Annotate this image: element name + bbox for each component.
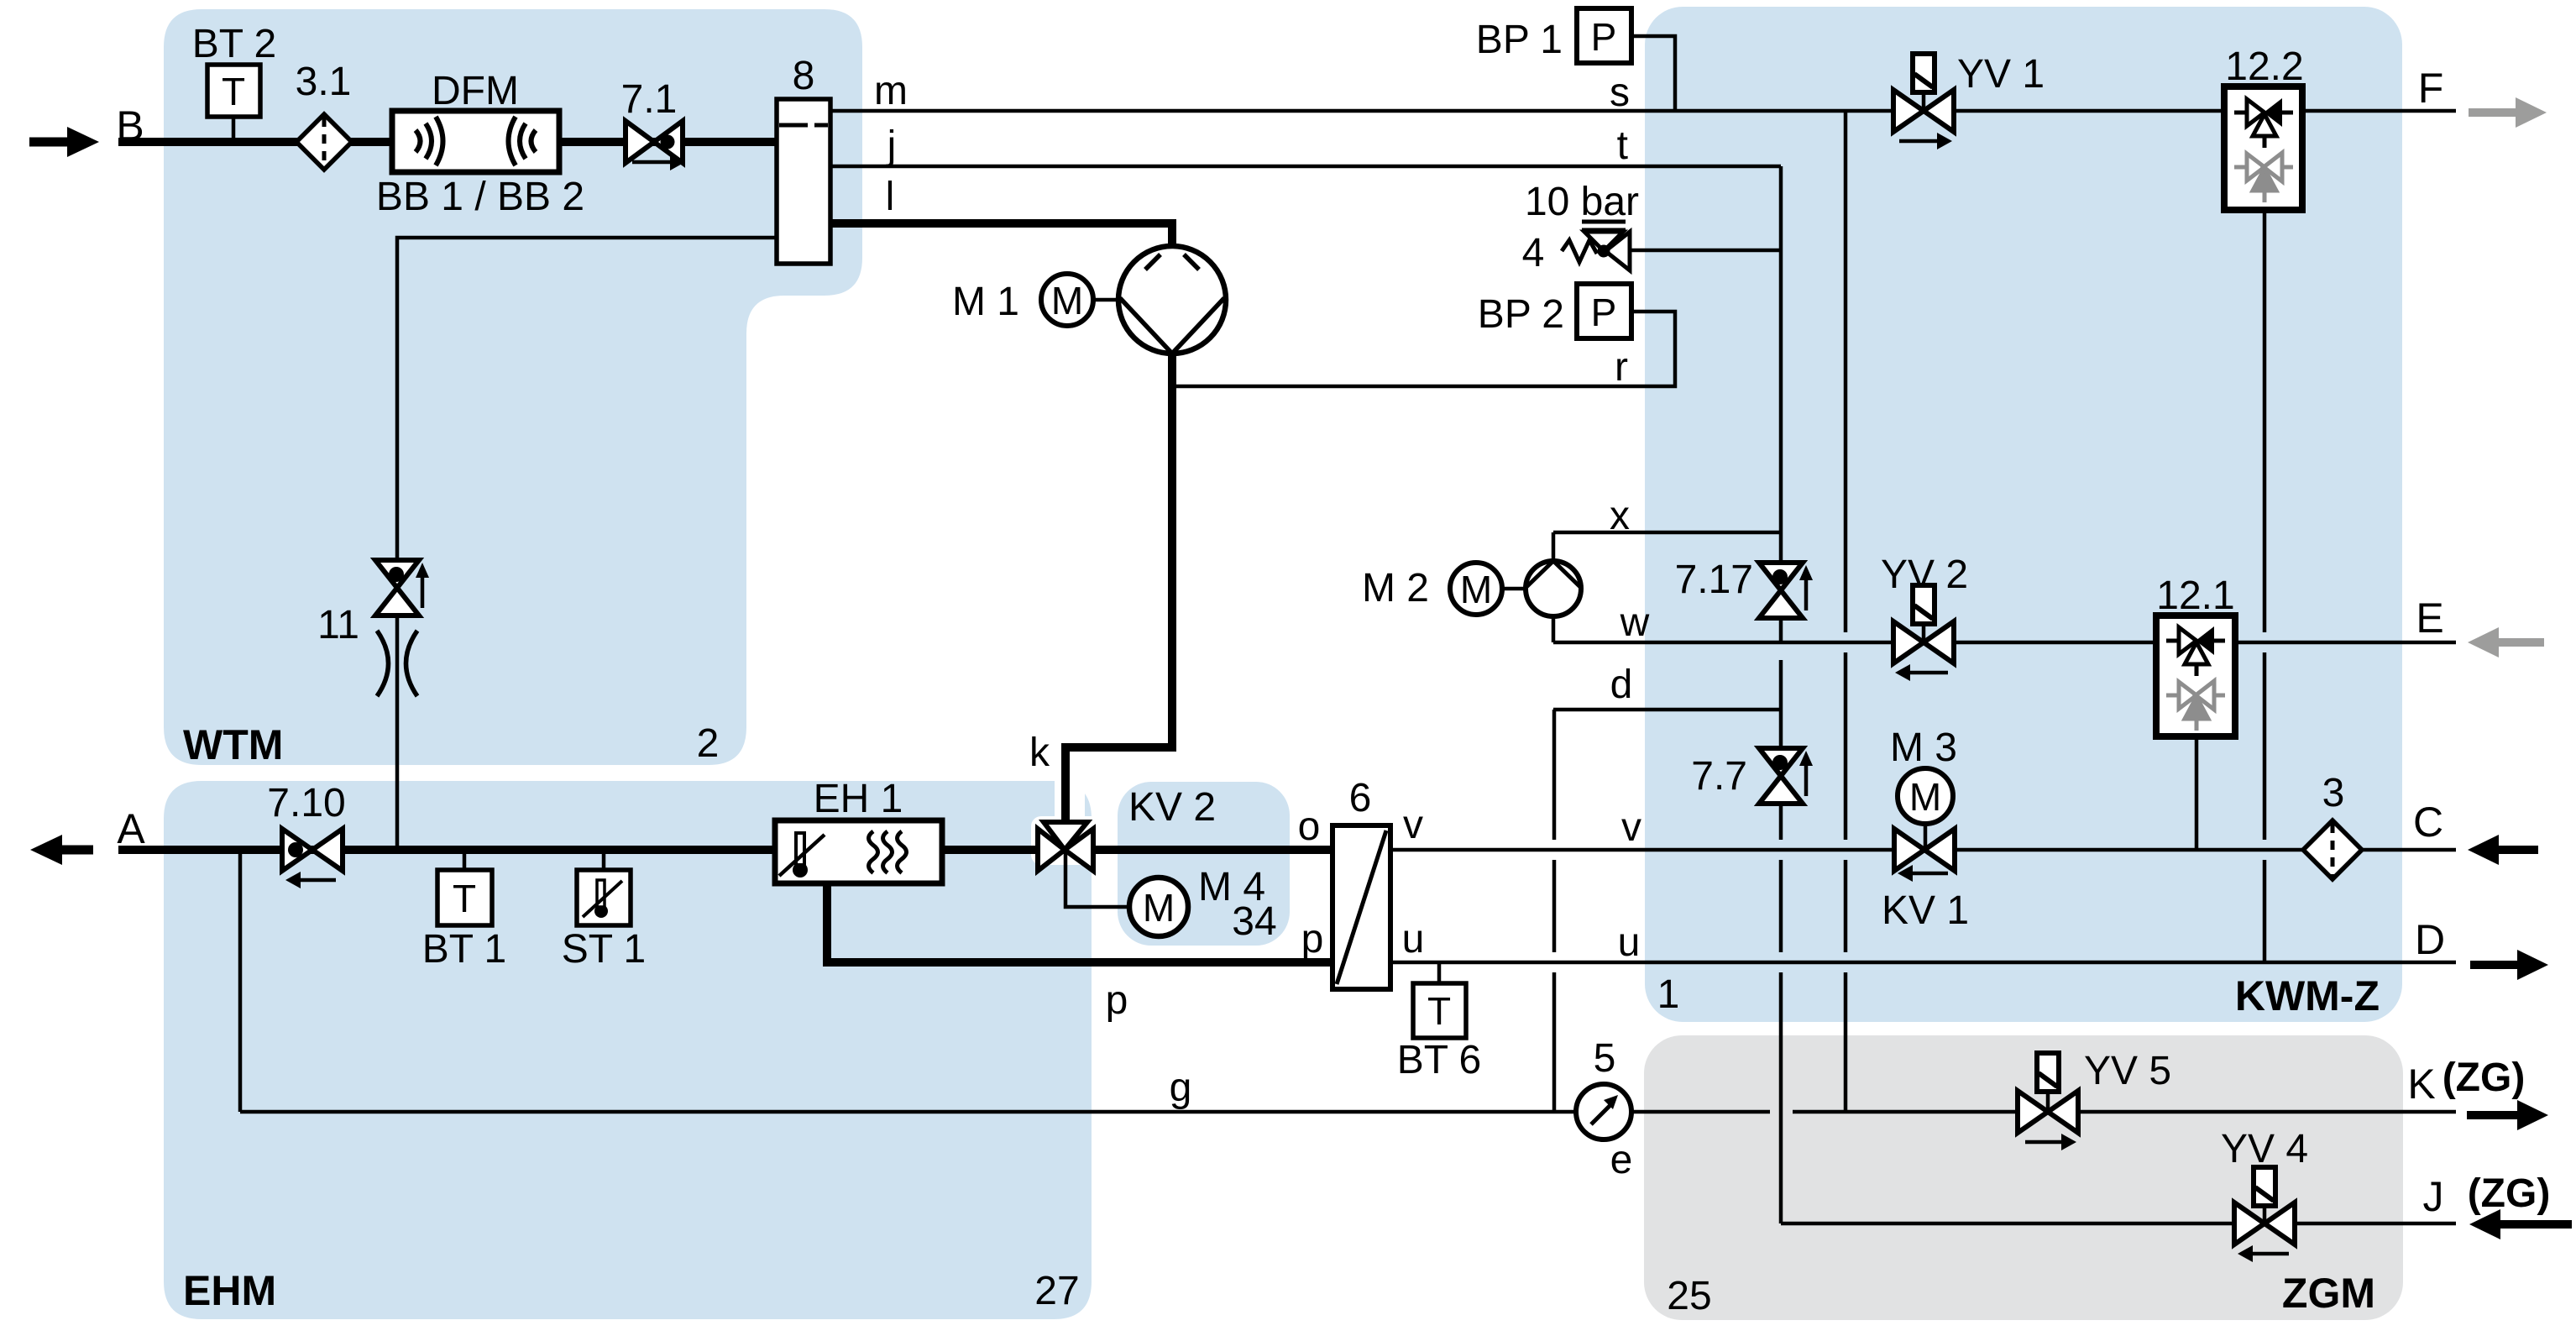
check valve unit 12.1	[2156, 616, 2235, 736]
pressure sensor BP2 box	[1577, 284, 1631, 338]
wire w/E line	[1553, 641, 2456, 645]
svg-text:10 bar: 10 bar	[1525, 180, 1639, 224]
svg-text:34: 34	[1232, 899, 1276, 944]
svg-text:BT 2: BT 2	[192, 22, 277, 66]
svg-text:E: E	[2416, 595, 2443, 642]
sensor ST1 box	[577, 870, 631, 925]
svg-text:EHM: EHM	[183, 1267, 276, 1314]
wire m/s/F line	[830, 109, 2456, 113]
svg-text:P: P	[1591, 15, 1617, 59]
pipe l line to pump M1	[830, 223, 1172, 248]
svg-text:YV 5: YV 5	[2084, 1049, 2171, 1093]
svg-text:T: T	[453, 877, 476, 920]
svg-text:WTM: WTM	[183, 721, 283, 768]
svg-text:12.1: 12.1	[2156, 574, 2234, 618]
wire branch 11 from separator 8	[397, 238, 777, 850]
thin wires	[233, 36, 2456, 1223]
svg-text:M: M	[1460, 568, 1492, 611]
svg-text:7.10: 7.10	[267, 781, 345, 825]
arrow A outlet	[30, 835, 93, 865]
svg-text:p: p	[1301, 917, 1324, 961]
svg-text:M 2: M 2	[1362, 566, 1429, 610]
flow meter DFM box	[392, 111, 559, 172]
svg-text:KWM-Z: KWM-Z	[2235, 972, 2380, 1019]
svg-text:12.2: 12.2	[2225, 45, 2303, 89]
pipe M1 outlet / k line	[1065, 352, 1172, 823]
svg-text:25: 25	[1667, 1274, 1711, 1318]
notch in EHM around valve KV2	[1055, 768, 1085, 835]
svg-text:w: w	[1620, 600, 1650, 645]
svg-text:u: u	[1402, 917, 1425, 961]
arrow J inlet	[2469, 1209, 2572, 1239]
wire M2 motor link	[1502, 587, 1527, 591]
svg-text:KV 1: KV 1	[1882, 888, 1969, 933]
pipe B line	[118, 138, 777, 146]
filter 3	[2303, 820, 2362, 879]
wire solenoid stems	[1922, 91, 1926, 111]
gauge 5	[1576, 1084, 1631, 1140]
separator 8	[777, 99, 830, 264]
svg-text:o: o	[1298, 804, 1321, 849]
svg-text:7.7: 7.7	[1691, 754, 1747, 799]
wire v/C line	[1390, 848, 2456, 852]
svg-text:YV 4: YV 4	[2221, 1127, 2308, 1171]
panel KWM-Z background	[1645, 7, 2402, 1022]
svg-text:EH 1: EH 1	[814, 777, 903, 821]
svg-text:(ZG): (ZG)	[2442, 1056, 2526, 1100]
filter 3.1	[296, 114, 352, 170]
check valve unit 12.2	[2224, 86, 2302, 210]
orifice arcs below valve 11	[377, 631, 417, 696]
svg-text:YV 2: YV 2	[1881, 553, 1968, 597]
solenoid valve YV2	[1893, 585, 1954, 681]
svg-text:m: m	[874, 69, 908, 113]
motor M2 circle	[1450, 563, 1502, 615]
svg-text:d: d	[1610, 663, 1633, 707]
svg-text:3: 3	[2322, 771, 2345, 815]
svg-text:l: l	[886, 175, 895, 219]
wire BT1 stub	[463, 851, 467, 870]
wire vertical 2616 from 12.1 to C	[2195, 736, 2199, 850]
panel ZGM background	[1644, 1035, 2403, 1320]
svg-text:BP 1: BP 1	[1476, 18, 1563, 62]
sensor BT1 box	[437, 870, 492, 925]
valve 7.1	[626, 121, 685, 170]
svg-text:27: 27	[1034, 1269, 1079, 1313]
wire ST1 stub	[602, 851, 606, 870]
pump M1	[1118, 246, 1226, 354]
svg-text:YV 1: YV 1	[1957, 52, 2045, 97]
wire M4 connector	[1065, 851, 1128, 907]
svg-text:u: u	[1618, 920, 1641, 965]
svg-text:BB 1 / BB 2: BB 1 / BB 2	[376, 175, 584, 219]
svg-text:ST 1: ST 1	[562, 927, 647, 972]
svg-text:M 3: M 3	[1890, 726, 1957, 770]
svg-text:BP 2: BP 2	[1478, 292, 1564, 337]
wire M1 motor link	[1093, 298, 1120, 302]
wire BP2 r line	[1175, 312, 1675, 386]
arrow D outlet	[2470, 950, 2548, 980]
svg-text:5: 5	[1594, 1036, 1616, 1081]
wire M2 pump loop verticals	[1552, 532, 1556, 563]
wire g branch from A line	[238, 850, 243, 1112]
wire relief valve 4 to vertical	[1629, 249, 1781, 253]
heat exchanger EH1	[775, 820, 942, 883]
svg-text:k: k	[1029, 731, 1050, 775]
svg-text:B: B	[116, 102, 144, 149]
svg-text:F: F	[2418, 65, 2444, 112]
svg-text:8: 8	[793, 54, 815, 98]
svg-text:C: C	[2413, 799, 2443, 846]
wire M3 motor link	[1924, 822, 1928, 850]
svg-text:2: 2	[697, 721, 720, 766]
svg-text:p: p	[1106, 978, 1128, 1023]
wire BT6 stub	[1437, 962, 1442, 983]
arrow B inlet	[29, 127, 99, 157]
solenoid valve YV5	[2018, 1053, 2078, 1150]
svg-text:T: T	[1427, 989, 1451, 1033]
sensor BT6 box	[1413, 983, 1466, 1038]
wire vertical 2121 t-to-J	[1779, 166, 1783, 642]
svg-text:A: A	[117, 805, 145, 852]
sensor BT2 box	[207, 65, 260, 117]
motor M1 circle	[1041, 274, 1093, 326]
svg-text:BT 1: BT 1	[422, 927, 507, 972]
svg-text:v: v	[1621, 805, 1641, 850]
svg-text:1: 1	[1657, 972, 1680, 1017]
svg-text:7.1: 7.1	[621, 77, 678, 122]
svg-text:K: K	[2407, 1061, 2435, 1108]
valve 11	[375, 560, 429, 616]
svg-text:M: M	[1143, 886, 1175, 930]
arrow C inlet	[2468, 835, 2538, 865]
pipe A line	[118, 846, 1335, 854]
wire x line	[1553, 531, 1781, 535]
valve 7.17	[1759, 563, 1813, 618]
pump M2	[1526, 561, 1581, 616]
svg-text:M: M	[1909, 775, 1941, 819]
arrow K outlet	[2467, 1100, 2548, 1130]
svg-text:s: s	[1610, 71, 1630, 115]
wire g/K line	[240, 1110, 1770, 1114]
svg-text:J: J	[2423, 1173, 2444, 1220]
svg-text:e: e	[1610, 1138, 1633, 1182]
arrow F outlet (gray)	[2469, 97, 2547, 128]
svg-text:M: M	[1051, 279, 1083, 322]
svg-text:x: x	[1610, 494, 1630, 538]
svg-text:T: T	[222, 70, 245, 113]
svg-text:11: 11	[317, 603, 359, 647]
svg-text:4: 4	[1522, 231, 1545, 275]
svg-text:KV 2: KV 2	[1128, 785, 1216, 830]
solenoid valve YV1	[1893, 54, 1954, 149]
svg-text:t: t	[1617, 123, 1628, 168]
svg-text:D: D	[2415, 916, 2445, 963]
svg-text:r: r	[1615, 345, 1628, 390]
svg-text:DFM: DFM	[432, 69, 519, 113]
panel WTM background	[164, 9, 862, 765]
svg-text:g: g	[1170, 1066, 1192, 1110]
valve KV1	[1894, 829, 1955, 882]
pressure sensor BP1 box	[1577, 8, 1631, 63]
svg-text:ZGM: ZGM	[2282, 1270, 2375, 1317]
svg-text:(ZG): (ZG)	[2468, 1171, 2551, 1216]
wire vertical 2697 from 12.2 to D	[2263, 210, 2267, 632]
svg-text:v: v	[1403, 803, 1423, 847]
wire u/D line	[1390, 961, 2456, 965]
thick pipes	[118, 142, 1335, 962]
wire d column vertical segments	[1552, 710, 1557, 840]
svg-text:BT 6: BT 6	[1397, 1038, 1482, 1082]
solenoid valve YV4	[2234, 1167, 2295, 1262]
svg-text:6: 6	[1349, 776, 1372, 820]
panel EHM background	[164, 781, 1092, 1319]
svg-text:3.1: 3.1	[296, 60, 352, 104]
svg-text:j: j	[886, 123, 897, 168]
wire BP1 to s line	[1631, 36, 1675, 111]
wire vertical 2198 s-to-K	[1844, 111, 1848, 632]
svg-text:M 1: M 1	[952, 280, 1019, 324]
wire BT2 stub	[232, 117, 236, 140]
separator 6	[1333, 825, 1390, 989]
valve 7.10	[282, 829, 343, 888]
svg-text:7.17: 7.17	[1675, 558, 1753, 602]
valve 7.7	[1759, 748, 1813, 804]
relief valve 4	[1562, 222, 1630, 270]
svg-text:P: P	[1591, 291, 1617, 334]
valve KV2 three-way	[1038, 822, 1093, 871]
arrow E inlet (gray)	[2468, 627, 2544, 658]
wire J line	[1781, 1222, 2456, 1226]
panel KV2 background	[1118, 782, 1290, 946]
wire d line	[1553, 708, 1781, 712]
pipe EH1 to p line	[827, 883, 1335, 962]
wire j/t line	[830, 165, 1781, 169]
motor M4 circle	[1129, 878, 1188, 936]
motor M3 circle	[1898, 768, 1953, 824]
